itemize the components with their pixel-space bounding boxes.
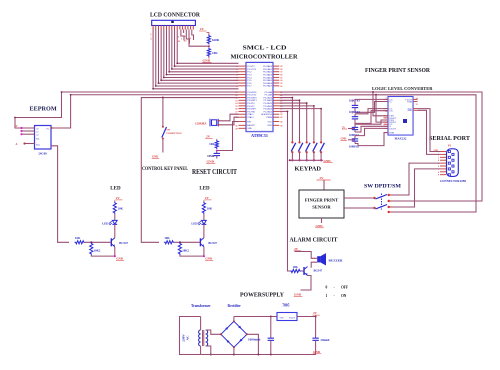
resistor 620R xyxy=(207,35,219,45)
svg-text:P0.7/AD7: P0.7/AD7 xyxy=(263,85,273,88)
wire: branch to converter T1IN xyxy=(373,92,388,116)
svg-text:6: 6 xyxy=(190,28,191,30)
transistor Q3 BC547 (alarm) xyxy=(304,267,323,276)
power label 2V (alarm) xyxy=(294,247,301,251)
U2 pin labels xyxy=(36,127,50,146)
wire: buzzer to collector xyxy=(311,262,317,268)
capacitor C2 10MF/63 xyxy=(349,111,360,122)
svg-text:ALARM CIRCUIT: ALARM CIRCUIT xyxy=(290,237,339,244)
svg-text:LED: LED xyxy=(110,187,121,192)
svg-text:4: 4 xyxy=(438,160,439,162)
svg-text:A2: A2 xyxy=(36,133,39,136)
svg-text:BUZZER: BUZZER xyxy=(329,259,343,263)
alarm circuit title xyxy=(290,237,339,244)
svg-text:GND: GND xyxy=(407,110,412,112)
svg-text:RESET CIRCUIT: RESET CIRCUIT xyxy=(192,168,237,176)
U1 left pin stubs xyxy=(239,66,247,128)
EEPROM title xyxy=(30,106,57,113)
svg-text:GND: GND xyxy=(324,159,332,163)
svg-text:5: 5 xyxy=(163,28,164,30)
svg-text:MICROCONTROLLER: MICROCONTROLLER xyxy=(231,54,299,61)
power label 2V (reset) xyxy=(205,135,217,140)
wire: LCD contrast pin to divider xyxy=(189,30,210,48)
svg-text:LED1: LED1 xyxy=(102,222,110,226)
wire: U1 TXD bus to level converter and switch xyxy=(279,91,482,201)
transformer label xyxy=(191,304,211,308)
svg-text:P3.3/INT1: P3.3/INT1 xyxy=(247,100,257,102)
logic level converter title xyxy=(372,86,433,91)
svg-text:4: 4 xyxy=(184,28,185,30)
svg-text:P2.5/A13: P2.5/A13 xyxy=(263,105,272,108)
svg-text:SW DPDT/SM: SW DPDT/SM xyxy=(364,184,402,190)
wire: C1 to U3 xyxy=(355,99,388,112)
LCD signal name labels xyxy=(150,34,191,44)
svg-text:P0.5/AD5: P0.5/AD5 xyxy=(263,79,273,82)
U2 part label 24C08 xyxy=(38,152,47,156)
crystal Y1 12MHZ xyxy=(195,119,218,127)
wire: branch to converter R1OUT xyxy=(376,95,388,122)
svg-text:XTAL1: XTAL1 xyxy=(247,113,254,116)
svg-text:10mfd: 10mfd xyxy=(320,338,329,342)
capacitor 10mfd (output) xyxy=(312,317,329,355)
svg-text:9: 9 xyxy=(438,175,439,177)
svg-text:P3.0/RXD: P3.0/RXD xyxy=(247,92,257,94)
microcontroller U1 AT89C51 body xyxy=(246,62,273,131)
wire: DB9 pin7 to switch throw 3 xyxy=(390,169,441,207)
svg-text:VOUT: VOUT xyxy=(289,318,296,320)
svg-text:10K: 10K xyxy=(209,142,215,146)
svg-text:P2.7/A15: P2.7/A15 xyxy=(263,110,272,113)
EEPROM U2 body xyxy=(35,126,52,150)
svg-text:Rectifier: Rectifier xyxy=(228,304,242,308)
svg-text:6: 6 xyxy=(166,28,167,30)
svg-text:BC547: BC547 xyxy=(208,241,217,245)
svg-text:4: 4 xyxy=(160,28,161,30)
svg-text:P0.6/AD6: P0.6/AD6 xyxy=(263,82,273,85)
wire: DB9 pin5 to switch throw 1 xyxy=(390,163,441,195)
rectifier label xyxy=(228,304,242,308)
svg-text:2V: 2V xyxy=(206,135,211,139)
svg-text:1: 1 xyxy=(176,28,177,30)
resistor 10K2 pulldown (LED1 left) xyxy=(90,242,101,255)
svg-text:8: 8 xyxy=(171,28,172,30)
svg-text:10K2: 10K2 xyxy=(182,249,189,253)
capacitor C1 10MF/63 xyxy=(349,100,360,111)
wire: U1 P2.7 to alarm circuit xyxy=(279,110,290,271)
svg-text:P3.7/RD: P3.7/RD xyxy=(247,111,255,113)
svg-text:P1.0/T2: P1.0/T2 xyxy=(247,66,255,68)
capacitor C4 10MF/63 xyxy=(349,137,360,149)
switch S6 DPDT xyxy=(373,194,392,214)
svg-text:GND: GND xyxy=(316,224,324,228)
svg-text:620R: 620R xyxy=(212,38,220,42)
svg-text:32: 32 xyxy=(280,86,282,88)
svg-text:1000mfd: 1000mfd xyxy=(248,338,260,342)
bridge rectifier D1-D4 xyxy=(220,317,260,356)
svg-text:RST: RST xyxy=(247,121,252,123)
svg-text:P0.2/AD2: P0.2/AD2 xyxy=(263,71,273,74)
ground GND (sensor) xyxy=(315,218,324,228)
svg-text:BC547: BC547 xyxy=(119,241,128,245)
capacitor 1000mfd xyxy=(248,317,274,355)
svg-text:ALE/PROG: ALE/PROG xyxy=(261,113,272,116)
wire: emitter to ground (alarm) xyxy=(301,276,312,291)
wire: reset node to U1 RST xyxy=(216,122,239,152)
svg-text:SERIAL PORT: SERIAL PORT xyxy=(429,136,470,142)
svg-text:P0.3/AD3: P0.3/AD3 xyxy=(263,73,273,76)
svg-text:SMCL - LCD: SMCL - LCD xyxy=(243,45,288,52)
wire: emitter to ground rail (LED1 left) xyxy=(91,255,116,257)
svg-text:A0: A0 xyxy=(36,127,39,130)
ground GND (LED1 left) xyxy=(116,257,124,261)
svg-text:P3.2/INT0: P3.2/INT0 xyxy=(247,97,257,99)
diode LED1 (LED2 right) xyxy=(191,214,206,231)
resistor 10K2 pulldown (LED2 right) xyxy=(178,242,189,255)
keypad switches S1-S5 xyxy=(291,141,324,161)
svg-text:GND: GND xyxy=(203,59,211,63)
svg-text:1: 1 xyxy=(326,294,328,298)
svg-text:P0.0/AD0: P0.0/AD0 xyxy=(263,65,273,68)
svg-text:LED: LED xyxy=(199,187,210,192)
LCD connector pin numbers xyxy=(152,28,193,30)
transistor Q BC547 (LED1 left) xyxy=(111,231,128,256)
svg-text:CONNECTOR DB9: CONNECTOR DB9 xyxy=(440,180,467,183)
svg-text:P0.1/AD1: P0.1/AD1 xyxy=(263,68,273,71)
wire: 2V to sensor box xyxy=(323,180,325,190)
wire: EEPROM to LED1 feed xyxy=(51,146,69,243)
module finger print sensor xyxy=(299,190,344,218)
LED indicator title (LED1 left) xyxy=(110,187,121,192)
svg-text:GND: GND xyxy=(205,257,213,261)
wire: EEPROM SDA to U1 P3.0 xyxy=(14,91,238,128)
wire: sensor RX to switch pole 2 xyxy=(344,207,375,209)
wire: crystal to XTAL2 xyxy=(218,117,239,126)
wire: U1 RXD bus to level converter and switch xyxy=(279,94,476,212)
svg-text:A1: A1 xyxy=(36,130,39,133)
wire: U3 T1OUT to DB9 xyxy=(418,109,441,152)
ground GND (LED2 right) xyxy=(205,257,213,261)
alarm truth table text xyxy=(326,286,349,299)
svg-text:2V: 2V xyxy=(116,196,121,200)
svg-text:BC547: BC547 xyxy=(314,269,323,273)
wire: U3 R1IN to DB9 xyxy=(418,110,441,154)
wire: C4 to U3 and GND xyxy=(341,128,389,145)
resistor 10K base (LED2 right) xyxy=(164,236,201,244)
svg-text:6: 6 xyxy=(438,166,439,168)
svg-text:GND: GND xyxy=(294,293,302,297)
svg-text:P2.2/A10: P2.2/A10 xyxy=(263,96,272,99)
svg-text:R2IN: R2IN xyxy=(389,133,394,135)
svg-text:CONTROL KEY PANEL: CONTROL KEY PANEL xyxy=(142,167,189,172)
svg-text:P3.4/T0: P3.4/T0 xyxy=(247,103,255,105)
switch SW control key panel xyxy=(162,98,182,153)
svg-text:AT89C51: AT89C51 xyxy=(251,133,268,138)
U3 pin labels xyxy=(386,98,419,135)
svg-text:10K: 10K xyxy=(207,207,213,211)
svg-text:OFF: OFF xyxy=(341,286,349,290)
power label 2V (LED1 left) xyxy=(115,196,123,202)
diode LED1 (LED1 left) xyxy=(102,214,117,231)
power label 2V (LED2 right) xyxy=(204,196,212,202)
level converter U3 MAX232 body xyxy=(388,97,413,136)
wire: keypad common rail xyxy=(289,159,323,161)
wire: LCD RS/RW/E pin drops xyxy=(181,30,194,44)
power label 2V (finger print sensor) xyxy=(317,176,331,180)
svg-text:2V: 2V xyxy=(320,176,325,180)
switch SW DPDT/SM title xyxy=(364,184,402,190)
svg-text:10K: 10K xyxy=(75,236,81,240)
svg-text:0: 0 xyxy=(326,286,328,290)
wire: C2 to U3 xyxy=(355,109,388,124)
svg-text:P3.5/T1: P3.5/T1 xyxy=(247,106,255,108)
microcontroller title xyxy=(231,45,299,61)
wire: C3 to U3 and 2V xyxy=(342,120,388,132)
DB9 part label CONNECTOR DB9 xyxy=(440,180,467,183)
resistor 10K (reset) xyxy=(209,140,218,149)
label 230V AC xyxy=(182,334,190,342)
svg-text:8: 8 xyxy=(438,172,439,174)
wire: U1 P3.2 to LED2 feed and control key xyxy=(141,97,238,243)
wire: power supply bottom rail xyxy=(201,354,316,356)
svg-text:RXD: RXD xyxy=(268,125,273,127)
LCD connector title xyxy=(150,12,200,19)
svg-text:P1.1/T2X: P1.1/T2X xyxy=(247,69,256,71)
connector J1 LCD xyxy=(152,20,196,29)
ground GND (reset) xyxy=(206,160,215,164)
svg-text:10K: 10K xyxy=(212,51,218,55)
svg-text:Transformer: Transformer xyxy=(191,304,211,308)
U1 left pin numbers xyxy=(235,66,238,130)
svg-text:FINGER PRINT: FINGER PRINT xyxy=(305,198,338,203)
svg-text:SW: SW xyxy=(167,129,171,132)
svg-text:PUSHBUTTON: PUSHBUTTON xyxy=(167,133,182,135)
svg-text:12MHZ: 12MHZ xyxy=(195,122,207,126)
svg-text:2V: 2V xyxy=(313,311,318,315)
keypad title xyxy=(295,166,322,173)
reset circuit title xyxy=(192,168,237,176)
svg-text:P2.4/A12: P2.4/A12 xyxy=(263,102,272,105)
svg-text:EEPROM: EEPROM xyxy=(30,106,57,113)
svg-text:A: A xyxy=(16,143,18,146)
EEPROM WP pin stub xyxy=(16,142,35,145)
svg-text:2V: 2V xyxy=(200,27,205,31)
svg-text:VCC: VCC xyxy=(268,121,273,123)
transformer T1 xyxy=(199,317,221,356)
ground GND (alarm) xyxy=(294,293,303,297)
svg-text:P3.6/WR: P3.6/WR xyxy=(247,109,256,111)
regulator U4 7805 xyxy=(277,313,317,321)
regulator label 7805 xyxy=(282,304,289,308)
ground GND (keypad) xyxy=(323,159,332,163)
ground GND (control key) xyxy=(152,156,160,159)
U1 pin name labels xyxy=(247,65,273,130)
svg-text:7: 7 xyxy=(168,28,169,30)
wire: crystal to XTAL1 xyxy=(218,114,239,122)
svg-text:P2.3/A11: P2.3/A11 xyxy=(264,99,273,102)
control key panel title xyxy=(142,167,189,172)
svg-text:Vcc: Vcc xyxy=(46,128,49,130)
serial port title xyxy=(429,136,470,142)
svg-text:ON: ON xyxy=(341,294,347,298)
ground GND (supply) xyxy=(313,350,322,354)
svg-text:24C08: 24C08 xyxy=(38,152,47,156)
buzzer LS1 xyxy=(317,253,343,265)
svg-text:VIN: VIN xyxy=(280,318,284,320)
svg-text:LCD CONNECTOR: LCD CONNECTOR xyxy=(150,12,200,19)
svg-text:2: 2 xyxy=(179,28,180,30)
wire: 2V to buzzer xyxy=(295,252,318,259)
power supply title xyxy=(240,292,284,299)
svg-text:GND: GND xyxy=(207,160,215,164)
wire: LCD connector data bus staircase to microcontroller xyxy=(152,30,238,90)
svg-text:P0.4/AD4: P0.4/AD4 xyxy=(263,76,273,79)
svg-text:AC: AC xyxy=(186,335,190,340)
svg-text:T2OUT: T2OUT xyxy=(389,128,397,130)
resistor 10K collector (LED1 left) xyxy=(113,202,123,215)
svg-text:P3.1/TXD: P3.1/TXD xyxy=(247,95,257,97)
svg-text:3: 3 xyxy=(182,28,183,30)
resistor 10K base (LED1 left) xyxy=(75,236,112,244)
svg-text:31: 31 xyxy=(235,125,237,127)
svg-text:2V: 2V xyxy=(205,196,210,200)
U1 part label AT89C51 xyxy=(251,133,268,138)
svg-text:10K: 10K xyxy=(164,236,170,240)
svg-text:MAX232: MAX232 xyxy=(395,137,407,141)
svg-text:2V: 2V xyxy=(15,125,18,128)
svg-text:3: 3 xyxy=(438,157,439,159)
svg-text:EA/VPP: EA/VPP xyxy=(247,124,255,127)
svg-text:GND: GND xyxy=(313,350,321,354)
svg-text:7805: 7805 xyxy=(282,304,289,308)
svg-text:1: 1 xyxy=(152,28,153,30)
svg-text:2: 2 xyxy=(155,28,156,30)
svg-text:SDA: SDA xyxy=(36,143,41,146)
wire: U1 P2 rows to keypad columns xyxy=(279,97,322,143)
svg-text:LOGIC LEVEL CONVERTER: LOGIC LEVEL CONVERTER xyxy=(372,86,433,91)
wire: EEPROM SCL to U1 P3.1 xyxy=(51,94,239,129)
svg-text:SENSOR: SENSOR xyxy=(312,205,331,210)
svg-text:P2.1/A9: P2.1/A9 xyxy=(265,94,273,97)
svg-text:10K: 10K xyxy=(118,207,124,211)
wire: emitter to ground rail (LED2 right) xyxy=(180,255,205,257)
EEPROM address pin stubs xyxy=(15,125,35,135)
U1 right pin numbers xyxy=(280,66,283,127)
U1 right pin stubs xyxy=(273,66,279,125)
svg-text:POWERSUPPLY: POWERSUPPLY xyxy=(240,292,284,299)
svg-text:R1IN: R1IN xyxy=(407,101,412,103)
svg-text:2: 2 xyxy=(236,69,237,71)
resistor 10K (alarm base) xyxy=(290,265,304,273)
svg-text:P2.6/A14: P2.6/A14 xyxy=(263,108,272,111)
svg-text:PSEN: PSEN xyxy=(266,117,272,119)
wire: sensor TX to switch pole 1 xyxy=(344,197,375,199)
transistor Q BC547 (LED2 right) xyxy=(200,231,217,256)
U3 part label MAX232 xyxy=(395,137,407,141)
svg-text:3: 3 xyxy=(158,28,159,30)
power label 2V (supply output) xyxy=(313,311,320,315)
svg-text:2V: 2V xyxy=(294,247,299,251)
resistor 10K collector (LED2 right) xyxy=(202,202,212,215)
LED indicator title (LED2 right) xyxy=(199,187,210,192)
svg-text:10MF: 10MF xyxy=(207,154,215,158)
svg-text:5: 5 xyxy=(187,28,188,30)
svg-text:9: 9 xyxy=(174,28,175,30)
capacitor 10MF (reset) xyxy=(207,151,220,159)
finger print sensor title xyxy=(365,67,430,74)
capacitor C3 10MF/63 xyxy=(349,125,360,137)
resistor 10K (LCD divider) xyxy=(207,48,218,58)
svg-text:XTAL2: XTAL2 xyxy=(247,116,254,119)
svg-text:GND: GND xyxy=(116,257,124,261)
svg-text:10K2: 10K2 xyxy=(94,249,101,253)
svg-text:1: 1 xyxy=(236,66,237,68)
svg-text:KEYPAD: KEYPAD xyxy=(295,166,322,173)
U3 pin stubs xyxy=(384,99,418,132)
svg-text:LED1: LED1 xyxy=(191,222,199,226)
ground GND (LCD divider) xyxy=(202,57,211,63)
svg-text:P2.0/A8: P2.0/A8 xyxy=(265,91,273,94)
svg-text:FINGER PRINT SENSOR: FINGER PRINT SENSOR xyxy=(365,67,430,74)
svg-text:GND: GND xyxy=(247,128,252,130)
svg-text:10K: 10K xyxy=(293,265,299,269)
connector P1 DB9 xyxy=(434,145,459,177)
wire: power supply top rail xyxy=(234,316,277,318)
power label 2V (LCD divider) xyxy=(199,27,209,34)
wire: AC mains left rail xyxy=(180,317,201,355)
svg-text:7: 7 xyxy=(193,28,194,30)
